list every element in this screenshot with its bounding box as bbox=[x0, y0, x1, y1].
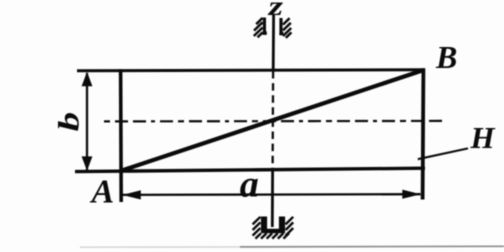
svg-text:z: z bbox=[267, 0, 283, 22]
dimension b top arrowhead bbox=[82, 72, 93, 87]
plate top edge bbox=[77, 70, 425, 71]
plate left edge bbox=[119, 69, 123, 202]
top bearing right hatching bbox=[283, 18, 291, 38]
top bearing left plate bbox=[263, 18, 266, 35]
bottom bearing hatching bbox=[253, 217, 294, 239]
top bearing left hatching bbox=[254, 18, 263, 38]
svg-text:b: b bbox=[52, 112, 86, 131]
plate bottom edge bbox=[75, 168, 425, 171]
plate right edge bbox=[421, 68, 426, 199]
dimension b bottom arrowhead bbox=[82, 156, 93, 171]
diagonal AB bbox=[122, 70, 424, 170]
top bearing right plate foot bbox=[279, 32, 283, 35]
axis z dashed segment through plate bbox=[271, 71, 274, 170]
scan artifact: bottom line right part bbox=[240, 245, 504, 248]
top bearing right plate bbox=[279, 18, 282, 35]
dimension a line bbox=[123, 193, 421, 196]
dimension a right arrowhead bbox=[402, 190, 421, 199]
svg-text:H: H bbox=[470, 120, 496, 155]
svg-text:A: A bbox=[90, 174, 115, 211]
scan artifact: faint bottom line left part bbox=[80, 246, 240, 248]
axis z solid lower segment bbox=[271, 170, 274, 227]
top bearing left plate foot bbox=[263, 31, 267, 34]
dimension a left arrowhead bbox=[122, 190, 141, 199]
leader line for H bbox=[418, 148, 468, 159]
horizontal centerline dashed bbox=[104, 120, 445, 123]
bottom bearing cup bbox=[261, 217, 285, 234]
svg-text:a: a bbox=[240, 164, 259, 206]
svg-text:B: B bbox=[435, 39, 457, 75]
dimension b line bbox=[86, 73, 88, 170]
axis z solid upper segment bbox=[272, 15, 275, 72]
